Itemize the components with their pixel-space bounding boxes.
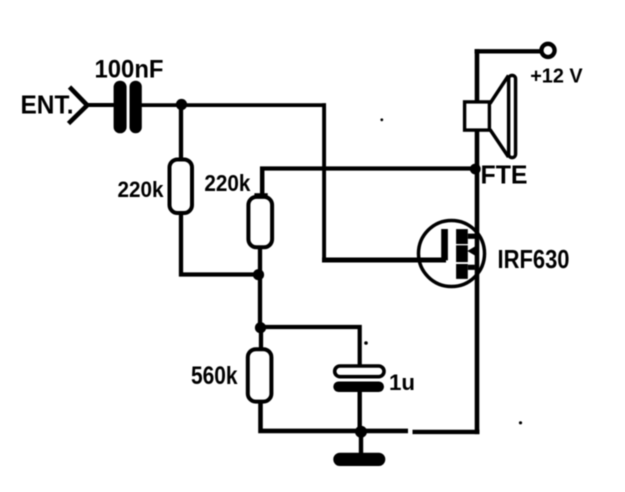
power label +12 V	[530, 65, 583, 87]
capacitor C1 100nF plates	[114, 81, 142, 134]
wire: horizontal rail R2-top to FTE node	[260, 166, 476, 170]
value label 220k for R1	[118, 177, 165, 202]
stray speck near top wire	[380, 118, 383, 121]
wire: gate lead into Q1	[322, 258, 446, 263]
wire: R2 bottom to node B	[258, 246, 262, 276]
stray speck near C2	[364, 341, 368, 345]
label ENT.	[21, 92, 74, 120]
wire: R3 bottom to ground node	[261, 400, 409, 431]
wire: C1 to node A and across top	[141, 103, 326, 107]
Q1 channel segment middle (body)	[456, 245, 468, 262]
svg-text:220k: 220k	[118, 177, 165, 202]
stray speck lower right	[519, 421, 522, 424]
wire: R1 bottom to node B	[181, 212, 259, 275]
net label FTE	[481, 160, 528, 190]
Q1 body arrow	[467, 245, 477, 256]
input arrow (ENT. chevron)	[69, 87, 88, 124]
transistor Q1 IRF630 internals: gate bar	[441, 229, 448, 260]
wire: ground node right segment to Q1 source drop	[413, 430, 480, 434]
value label 220k for R2	[204, 170, 251, 196]
wire: input stub to C1	[86, 103, 114, 107]
svg-text:ENT.: ENT.	[21, 92, 74, 120]
resistor R3 560k	[248, 349, 272, 401]
value label 560k for R3	[191, 362, 238, 390]
Q1 source lead	[468, 265, 475, 270]
svg-text:IRF630: IRF630	[498, 244, 570, 274]
ground node junction dot	[355, 426, 367, 438]
node B junction dot	[253, 269, 264, 280]
wire: node B down to node C	[258, 275, 262, 330]
wire: node A down to R1 top	[179, 103, 183, 161]
wire: node C right and down to C2 top	[260, 327, 360, 367]
svg-text:220k: 220k	[204, 170, 251, 196]
value label 100nF for C1	[95, 55, 164, 83]
node FTE junction dot	[470, 164, 481, 175]
part label IRF630 for Q1	[498, 244, 570, 274]
svg-text:FTE: FTE	[481, 160, 528, 190]
capacitor C2 1u top plate	[335, 366, 384, 377]
svg-text:+12 V: +12 V	[530, 65, 583, 87]
Q1 drain lead	[468, 234, 476, 239]
wire: node C to R3 top	[259, 327, 263, 351]
speaker FTE: cone rim	[509, 75, 516, 157]
ground symbol bar	[333, 453, 385, 466]
node C junction dot	[255, 322, 266, 333]
wire: vertical drop from top wire to gate level	[322, 103, 326, 262]
wire: top rail to +12V terminal	[475, 49, 541, 53]
svg-text:100nF: 100nF	[95, 55, 164, 83]
wire: ground stub below ground node	[359, 432, 363, 454]
wire: R2 top lead jog to FTE rail	[254, 167, 267, 196]
wire: C2 bottom to ground node	[358, 391, 362, 433]
transistor Q1 circle (IRF630 body)	[419, 221, 485, 287]
svg-text:1u: 1u	[389, 370, 415, 395]
wire: main right vertical (V+ / speaker / Q1 / source)	[475, 49, 480, 434]
capacitor C2 1u bottom plate	[333, 382, 384, 393]
+12V open terminal	[541, 44, 554, 57]
resistor R2 220k	[248, 197, 272, 247]
resistor R1 220k	[170, 160, 193, 214]
svg-text:560k: 560k	[191, 362, 238, 390]
value label 1u for C2	[389, 370, 415, 395]
speaker FTE: driver square	[465, 102, 490, 130]
Q1 channel segment bottom (source)	[456, 264, 468, 279]
speaker FTE: cone lines	[490, 76, 509, 158]
node A junction dot	[176, 99, 187, 110]
Q1 channel segment top (drain)	[456, 229, 468, 244]
